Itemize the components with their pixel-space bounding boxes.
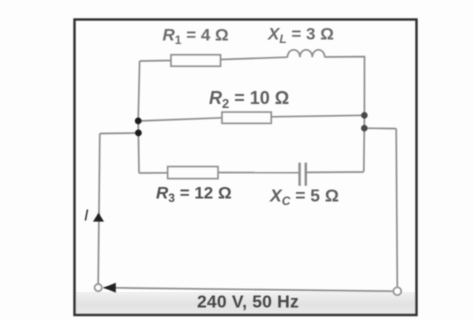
- wire XL to right corner and right bus down: [325, 57, 365, 172]
- svg-text:240 V, 50 Hz: 240 V, 50 Hz: [197, 292, 299, 312]
- bottom arrow (left): [104, 283, 116, 293]
- svg-text:XL = 3 Ω: XL = 3 Ω: [267, 25, 334, 47]
- resistor R2: [222, 112, 271, 123]
- capacitor XC plate right: [305, 163, 307, 186]
- wire bottom branch left: [139, 172, 168, 174]
- node B dot (left, feed): [135, 130, 142, 137]
- wire middle branch left: [138, 118, 222, 121]
- node A dot (left, middle branch): [135, 118, 142, 125]
- wire R1 to L1: [221, 57, 288, 59]
- terminal left: [95, 284, 102, 291]
- svg-text:R1 = 4 Ω: R1 = 4 Ω: [163, 26, 229, 48]
- wire right feed horizontal: [364, 127, 396, 129]
- label I: [84, 208, 89, 225]
- resistor R3: [168, 167, 218, 179]
- bottom gray band behind source label: [76, 292, 415, 314]
- capacitor XC plate left: [298, 163, 300, 186]
- node D dot (right, feed): [361, 125, 368, 132]
- terminal right: [393, 287, 401, 295]
- wire R3 to C: [218, 172, 299, 174]
- label R2 = 10 ohm: [209, 88, 289, 111]
- wire left feed vertical: [98, 134, 100, 285]
- current arrow I (up): [93, 213, 104, 222]
- wire middle branch right: [271, 115, 364, 117]
- wire right feed vertical: [396, 129, 397, 287]
- svg-text:R2 = 10 Ω: R2 = 10 Ω: [209, 88, 289, 111]
- label R1 = 4 ohm: [163, 26, 229, 48]
- border frame: [75, 20, 417, 316]
- svg-text:XC = 5 Ω: XC = 5 Ω: [269, 186, 339, 209]
- wire left bus vertical: [138, 61, 139, 173]
- wire C to right bus: [306, 171, 364, 173]
- label 240V 50Hz: [197, 292, 299, 312]
- label R3 = 12 ohm: [156, 184, 232, 206]
- svg-text:I: I: [84, 208, 89, 225]
- label XC = 5 ohm: [269, 186, 339, 209]
- wire bottom return: [103, 288, 393, 292]
- label XL = 3 ohm: [267, 25, 334, 47]
- wire left feed horizontal: [100, 132, 139, 135]
- resistor R1: [171, 55, 221, 66]
- inductor XL: [288, 50, 325, 57]
- wire top branch left segment: [140, 60, 171, 63]
- node C dot (right, middle branch): [361, 112, 368, 119]
- svg-text:R3 = 12 Ω: R3 = 12 Ω: [156, 184, 232, 206]
